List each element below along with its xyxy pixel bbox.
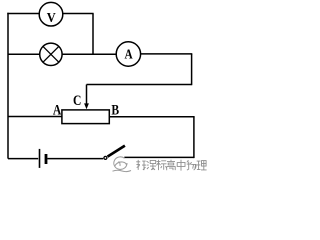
char 课 (147, 160, 157, 170)
svg-text:A: A (125, 47, 134, 62)
wire right vertical lower (193, 117, 195, 158)
wire voltmeter right to node (63, 13, 94, 15)
battery short plate (45, 154, 48, 164)
voltmeter V (39, 2, 63, 26)
char 物 (187, 160, 196, 170)
watermark logo (113, 157, 132, 172)
svg-text:A: A (53, 101, 62, 118)
battery long plate (39, 149, 41, 168)
char 新 (136, 160, 146, 170)
wire rheostat terminal A to left bus (8, 116, 62, 118)
char 标 (157, 160, 167, 170)
wire battery to switch pivot (47, 158, 103, 160)
rheostat body R (62, 110, 109, 124)
wire left vertical bus (7, 13, 9, 159)
label A (left terminal) (53, 101, 62, 118)
wire ammeter right (141, 53, 193, 55)
wire rheostat terminal B to right (109, 116, 194, 118)
wire node down to lamp-ammeter line (92, 14, 94, 55)
wire upper loop to wiper (87, 84, 192, 86)
ammeter A (116, 42, 140, 66)
svg-text:B: B (111, 101, 119, 118)
wire bottom right to switch contact (124, 156, 194, 158)
rheostat wiper arrow (84, 85, 89, 110)
switch S pivot (104, 156, 107, 159)
label B (right terminal) (111, 101, 119, 118)
wire battery negative (bottom-left) (8, 158, 38, 160)
wire right vertical upper (191, 54, 193, 85)
wire battery positive to voltmeter (top-left horizontal) (7, 13, 39, 15)
label C (wiper) (73, 92, 81, 109)
char 高 (167, 160, 176, 171)
char 理 (197, 161, 207, 170)
wire left bus to lamp (8, 53, 40, 55)
char 中 (177, 160, 185, 171)
switch S lever (108, 146, 125, 157)
watermark text 新课标高中物理 (simulated strokes) (136, 160, 206, 171)
wire lamp to ammeter (62, 53, 116, 55)
svg-text:C: C (73, 92, 81, 109)
lamp (40, 43, 62, 65)
svg-text:V: V (47, 10, 56, 26)
